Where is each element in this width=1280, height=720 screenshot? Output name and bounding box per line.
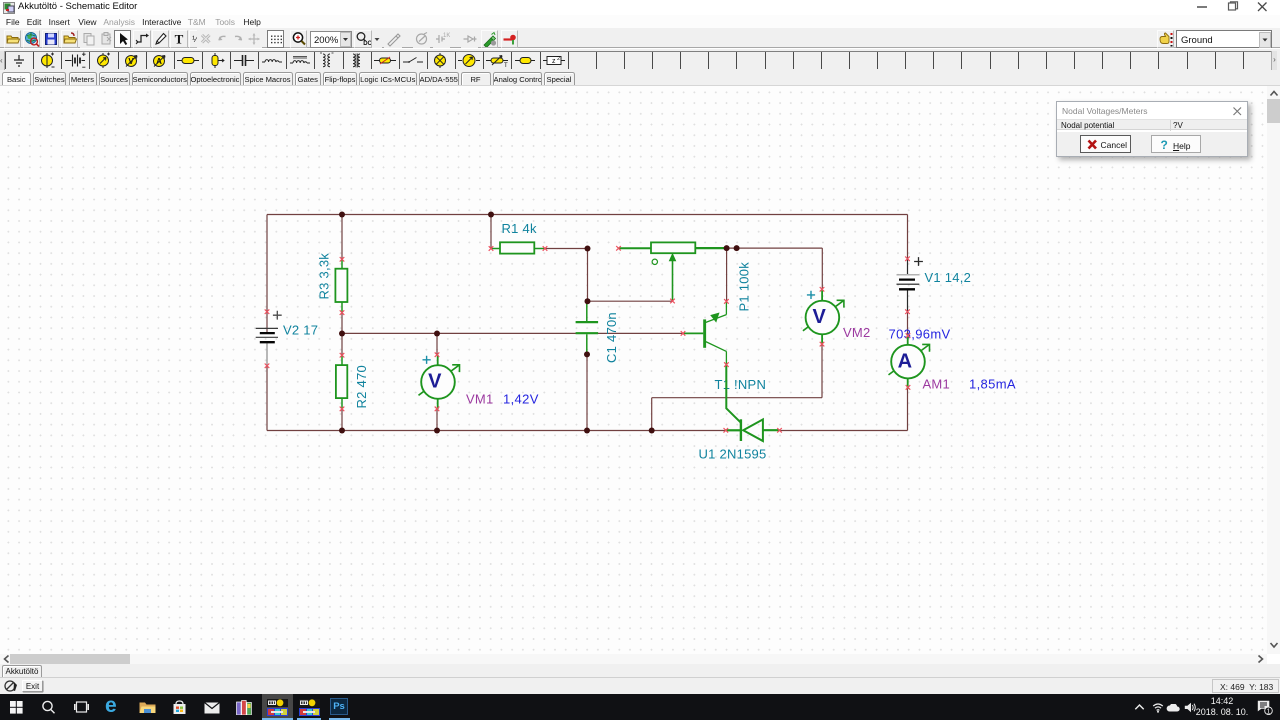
svg-text:1,42V: 1,42V xyxy=(503,392,539,407)
svg-text:R3 3,3k: R3 3,3k xyxy=(316,253,331,300)
wire mid rail to base xyxy=(342,332,683,334)
wire right rail top xyxy=(907,215,909,259)
svg-text:R2 470: R2 470 xyxy=(354,365,369,408)
wire to wiper xyxy=(588,300,673,302)
svg-text:1,85mA: 1,85mA xyxy=(969,377,1016,392)
pin marks xyxy=(265,246,911,433)
svg-text:C1 470n: C1 470n xyxy=(604,312,619,363)
wire return to bottom rail xyxy=(651,398,653,431)
wire C1 bottom to rail xyxy=(586,354,588,430)
resistor R2 xyxy=(336,355,347,409)
wire VM1 top xyxy=(436,333,438,354)
wire collector drop xyxy=(726,248,728,301)
wire R2 to bottom rail xyxy=(341,409,343,431)
svg-text:V: V xyxy=(813,306,827,328)
node mid-VM1 xyxy=(434,331,440,337)
wire bottom rail left xyxy=(267,430,726,432)
wire R1 drop xyxy=(490,215,492,249)
svg-text:z: z xyxy=(552,58,556,65)
wire emitter to SCR gate xyxy=(726,365,741,423)
node R1-C1 xyxy=(585,246,591,252)
resistor R1 xyxy=(491,242,545,253)
svg-text:T: T xyxy=(175,32,184,47)
node bottom-R2 xyxy=(339,428,345,434)
svg-text:R1 4k: R1 4k xyxy=(502,221,537,236)
svg-text:T1 !NPN: T1 !NPN xyxy=(715,377,767,392)
voltmeter VM2 xyxy=(803,290,844,345)
svg-text:1K: 1K xyxy=(443,33,450,39)
thyristor U1 xyxy=(726,419,780,441)
wire VM1 bottom xyxy=(436,409,438,431)
svg-text:T: T xyxy=(504,63,508,69)
wire R3 to mid node xyxy=(341,313,343,334)
wire left rail lower xyxy=(266,366,268,431)
svg-text:A: A xyxy=(898,350,912,372)
wire AM1 to bottom rail xyxy=(907,388,909,431)
node pot-right xyxy=(724,245,730,251)
wire V1 to AM1 xyxy=(907,312,909,336)
node pot-right2 xyxy=(734,245,740,251)
wire top rail xyxy=(267,214,908,216)
svg-text:2: 2 xyxy=(557,56,560,62)
node mid-R3R2 xyxy=(339,331,345,337)
svg-text:DC: DC xyxy=(363,41,371,47)
wire R3 top drop xyxy=(341,215,343,260)
transistor T1 xyxy=(683,301,726,364)
svg-text:V: V xyxy=(428,371,442,393)
svg-text:V2 17: V2 17 xyxy=(283,323,318,338)
svg-text:VM1: VM1 xyxy=(466,392,493,407)
capacitor C1 xyxy=(576,301,599,354)
node C1-top xyxy=(585,298,591,304)
potentiometer P1 xyxy=(619,242,727,301)
node bottom-C1 xyxy=(584,428,590,434)
wire left rail upper xyxy=(266,215,268,312)
battery V1 xyxy=(897,257,923,312)
svg-text:V1 14,2: V1 14,2 xyxy=(925,270,972,285)
resistor R3 xyxy=(335,259,347,313)
svg-text:VM2: VM2 xyxy=(843,325,870,340)
svg-text:703,96mV: 703,96mV xyxy=(889,326,951,341)
wire bottom rail right xyxy=(780,430,908,432)
wire C1 node drop xyxy=(587,249,589,302)
battery V2 xyxy=(256,311,282,366)
wire pot right to VM2 corner xyxy=(727,247,823,249)
wire node to R2 xyxy=(341,334,343,356)
wire VM2 corner down xyxy=(821,248,823,289)
voltmeter VM1 xyxy=(419,355,460,410)
node top-R1 xyxy=(488,212,494,218)
wire VM2 bottom down xyxy=(821,344,823,398)
node C1-bottom xyxy=(584,351,590,357)
node top-R3 xyxy=(339,212,345,218)
node bottom-return xyxy=(649,428,655,434)
svg-text:U1 2N1595: U1 2N1595 xyxy=(699,447,767,462)
wire R1 to C1 node xyxy=(545,248,588,250)
svg-text:P1 100k: P1 100k xyxy=(737,262,752,312)
svg-text:AM1: AM1 xyxy=(923,377,950,392)
ammeter AM1 xyxy=(889,334,930,389)
svg-text:1: 1 xyxy=(1267,708,1271,715)
wire VM2 return horizontal xyxy=(652,397,822,399)
node bottom-VM1 xyxy=(434,428,440,434)
